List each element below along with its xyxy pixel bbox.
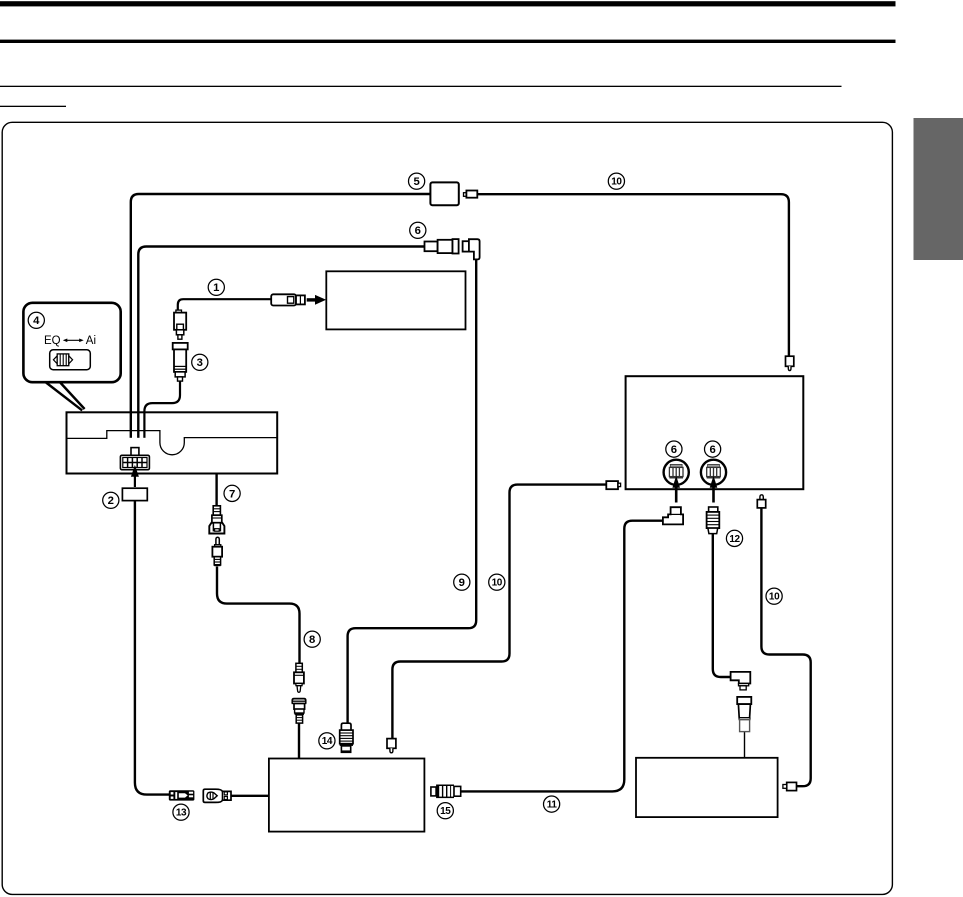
arrow into display box: [307, 298, 316, 301]
label 13: [173, 804, 189, 820]
plug into right box left side: [606, 481, 618, 489]
plug 7 upper: [213, 506, 220, 515]
plug into bottom-right box: [737, 697, 751, 704]
svg-text:3: 3: [197, 357, 203, 369]
rca jack 8 lower: [292, 699, 305, 704]
rca plug 8 upper: [296, 663, 302, 672]
antenna socket 6 right: [701, 460, 726, 485]
wire head unit to antenna plug 6: [138, 247, 424, 438]
svg-text:2: 2: [108, 495, 114, 507]
svg-text:6: 6: [415, 225, 421, 237]
svg-text:15: 15: [440, 806, 451, 817]
callout 4 bubble: [23, 303, 120, 382]
antenna plug 6: [425, 242, 438, 252]
wire 7 to rca 8: [217, 567, 300, 664]
svg-text:5: 5: [413, 176, 419, 188]
plug at end of wire 10 top: [786, 356, 794, 366]
wire 9 from antenna jack down to plug 14: [348, 259, 477, 723]
svg-text:Ai: Ai: [86, 335, 96, 347]
wire 12 plug to bottom-right box: [744, 732, 746, 758]
callout tail: [46, 383, 82, 411]
wire 2 down to spade 13: [135, 501, 169, 795]
label 15: [437, 803, 453, 819]
head unit rear contour: [67, 431, 278, 455]
plug right of box 5: [464, 193, 467, 197]
plug 14: [341, 723, 351, 730]
double arrow: [65, 339, 83, 341]
svg-text:7: 7: [229, 488, 235, 500]
svg-text:11: 11: [547, 800, 558, 811]
plug 12: [709, 507, 718, 512]
svg-text:6: 6: [709, 444, 715, 456]
wire 7: [215, 454, 217, 506]
header underline: [0, 86, 842, 87]
wire 1: [178, 299, 272, 310]
switch icon: [53, 356, 57, 364]
label 1: [208, 279, 224, 295]
svg-text:4: 4: [33, 315, 40, 327]
antenna socket 6 left: [664, 460, 689, 485]
svg-text:8: 8: [309, 634, 315, 646]
plug above extension 3: [176, 310, 182, 313]
svg-text:10: 10: [769, 592, 780, 603]
right-angle plug on wire 11: [663, 507, 683, 524]
label 6 socket right: [705, 441, 721, 457]
label 14: [319, 733, 335, 749]
label 6 top: [410, 222, 426, 238]
plug at end of wire 10 right: [787, 782, 797, 790]
head unit box: [67, 412, 278, 473]
label 3: [192, 354, 208, 370]
extension connector 3: [173, 343, 188, 350]
label 6 socket left: [666, 441, 682, 457]
plug at end of wire 10 middle: [387, 739, 396, 749]
wire 10 middle: [392, 485, 606, 739]
svg-text:9: 9: [459, 577, 465, 589]
arrow into socket left: [675, 486, 678, 503]
amplifier box bottom middle: [269, 759, 425, 832]
label 7: [224, 485, 240, 501]
svg-text:14: 14: [322, 736, 333, 747]
wire stubs into head unit: [130, 412, 132, 438]
second rule: [0, 40, 896, 43]
spade male 13: [203, 789, 231, 802]
label 10 right: [766, 588, 782, 604]
plug 7 lower: [216, 537, 219, 544]
box 5 (relay/filter): [430, 182, 458, 205]
wire rca 8 to amp: [298, 723, 300, 759]
antenna jack L-shaped: [463, 241, 469, 251]
label 4: [28, 312, 44, 328]
plug 1 (mini DIN): [271, 294, 296, 305]
wire 11: [461, 521, 663, 792]
wire head unit to box 5: [131, 194, 431, 438]
top rule thick: [0, 1, 896, 6]
wire spade 13 to amp: [231, 795, 269, 797]
right box (CD changer): [626, 376, 804, 489]
side tab: [914, 118, 963, 260]
label 9: [454, 574, 470, 590]
svg-text:EQ: EQ: [44, 335, 61, 347]
label 5: [409, 173, 425, 189]
label 2: [103, 492, 119, 508]
plug 15: [431, 787, 436, 796]
plug under bottom of right box (wire 10 right start): [760, 495, 763, 500]
head unit connector block: [120, 455, 149, 469]
bottom right box: [636, 758, 778, 817]
wire 3 into head unit: [144, 381, 180, 438]
svg-text:6: 6: [671, 444, 677, 456]
svg-text:12: 12: [729, 534, 740, 545]
wire 10 right: [761, 508, 810, 786]
svg-text:1: 1: [213, 282, 219, 294]
switch icon box: [50, 350, 91, 370]
wire 10 top from box 5 to right box plug: [477, 194, 789, 355]
label 11: [544, 796, 560, 812]
label 12: [726, 530, 742, 546]
svg-text:13: 13: [176, 808, 187, 819]
svg-text:10: 10: [611, 177, 622, 188]
arrow from harness 2 to head unit connector: [134, 476, 136, 488]
spade female 13: [169, 790, 195, 800]
harness box 2: [122, 488, 147, 500]
label 10 top: [608, 173, 624, 189]
wire 12: [713, 533, 731, 677]
arrow into socket right: [712, 486, 715, 503]
label 10 middle: [489, 574, 505, 590]
diagram border: [2, 122, 892, 894]
right-angle jack on wire 12: [731, 672, 751, 684]
section underline: [0, 106, 66, 107]
label 8: [304, 631, 320, 647]
display box (1 destination): [326, 271, 465, 329]
head unit connector tab: [131, 448, 139, 456]
svg-text:10: 10: [492, 578, 503, 589]
